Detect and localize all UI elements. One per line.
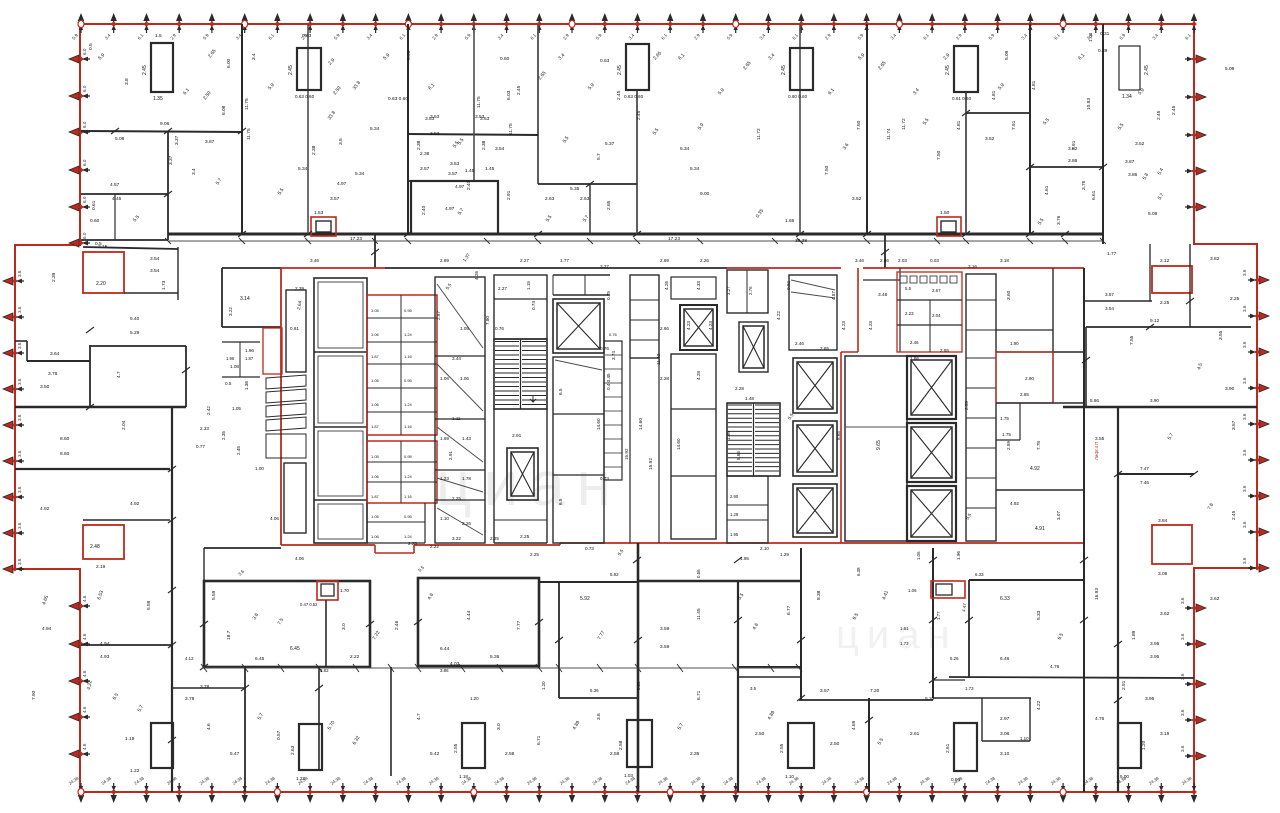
svg-text:0.60: 0.60 xyxy=(90,218,100,224)
svg-text:Лифт.4 П: Лифт.4 П xyxy=(1094,442,1099,460)
svg-text:2.48: 2.48 xyxy=(90,544,100,550)
svg-text:6.0: 6.0 xyxy=(82,159,87,166)
svg-text:3.27: 3.27 xyxy=(600,264,609,269)
stairwell 2 xyxy=(727,403,780,476)
svg-text:4.26: 4.26 xyxy=(664,281,669,290)
svg-text:3.54: 3.54 xyxy=(1105,306,1114,311)
svg-text:2.57: 2.57 xyxy=(436,311,441,320)
core red notch xyxy=(857,268,859,352)
svg-text:3.57: 3.57 xyxy=(330,196,340,202)
top band wall x=867 xyxy=(866,24,868,234)
bottom edge dimension ticks xyxy=(68,775,1197,803)
left wing red room upper xyxy=(83,252,124,293)
svg-text:2.25: 2.25 xyxy=(1160,300,1170,306)
svg-text:2.26: 2.26 xyxy=(700,258,709,263)
room 3.14 walls xyxy=(222,267,281,269)
svg-text:3.60: 3.60 xyxy=(1006,290,1012,300)
svg-text:3.52: 3.52 xyxy=(852,196,862,202)
svg-text:6.33: 6.33 xyxy=(1000,596,1010,602)
wall y=677 xyxy=(949,677,1194,678)
room below stair1 xyxy=(493,409,495,543)
niche strip right of E1 xyxy=(604,341,622,480)
svg-text:1.24: 1.24 xyxy=(404,534,413,539)
svg-text:7.78: 7.78 xyxy=(1036,441,1041,450)
mid-right wall y=301 xyxy=(1084,300,1152,302)
svg-text:6.5: 6.5 xyxy=(558,388,563,395)
svg-text:3.37: 3.37 xyxy=(168,155,174,165)
duct walls 3.59 xyxy=(738,666,801,668)
svg-text:0.76: 0.76 xyxy=(495,326,504,331)
svg-text:5.34: 5.34 xyxy=(355,171,365,177)
small rooms wall x=590 xyxy=(589,184,591,234)
svg-text:2.46: 2.46 xyxy=(394,620,400,630)
svg-text:14.60: 14.60 xyxy=(596,418,601,430)
svg-text:3.87: 3.87 xyxy=(1125,159,1135,165)
lower row wall x=319 xyxy=(318,667,320,770)
core column C rooms xyxy=(435,277,485,543)
svg-text:1.77: 1.77 xyxy=(560,258,569,263)
top-left small partition x=115 xyxy=(114,194,116,240)
core red bottom notch xyxy=(374,545,376,553)
svg-text:3.6: 3.6 xyxy=(1242,269,1247,276)
svg-text:1.06: 1.06 xyxy=(371,402,380,407)
svg-text:5.47: 5.47 xyxy=(230,751,240,757)
svg-text:1.95: 1.95 xyxy=(730,532,739,537)
top band wall x=637 xyxy=(636,90,638,234)
svg-text:11.40: 11.40 xyxy=(656,353,661,365)
elevator E4a xyxy=(907,356,956,419)
svg-text:0.60: 0.60 xyxy=(500,56,510,62)
svg-text:3.6: 3.6 xyxy=(1180,633,1185,640)
top rooms center xyxy=(727,270,768,313)
svg-text:0.63 0.60: 0.63 0.60 xyxy=(295,94,315,99)
left wing wall x=90 xyxy=(89,345,91,407)
rooms below E1 xyxy=(553,357,604,543)
top band wall x=1103 xyxy=(1102,24,1104,244)
left wing wall y=361 xyxy=(27,360,90,362)
svg-text:1.06: 1.06 xyxy=(371,474,380,479)
svg-text:4.44: 4.44 xyxy=(466,610,472,620)
top band wall x=242 xyxy=(241,24,243,234)
svg-text:4.12: 4.12 xyxy=(185,656,194,661)
svg-text:4.91: 4.91 xyxy=(1035,526,1045,532)
left wing wall y=293 xyxy=(124,292,178,294)
svg-text:3.87: 3.87 xyxy=(205,139,215,145)
svg-text:3.37: 3.37 xyxy=(174,135,180,145)
svg-text:2.40: 2.40 xyxy=(466,180,472,190)
svg-text:3.86: 3.86 xyxy=(1068,158,1078,164)
svg-text:2.25: 2.25 xyxy=(520,534,530,540)
svg-text:0.61: 0.61 xyxy=(290,326,299,331)
svg-text:1.75: 1.75 xyxy=(1002,432,1011,437)
svg-text:1.06: 1.06 xyxy=(371,332,380,337)
svg-text:1.5: 1.5 xyxy=(155,33,162,39)
svg-text:0.74: 0.74 xyxy=(531,301,536,310)
svg-text:2.22: 2.22 xyxy=(430,544,439,549)
svg-text:2.23: 2.23 xyxy=(905,311,914,316)
svg-text:6.71: 6.71 xyxy=(536,735,542,745)
svg-text:1.05: 1.05 xyxy=(371,514,380,519)
svg-text:1.53: 1.53 xyxy=(314,210,324,216)
svg-text:1.96: 1.96 xyxy=(956,551,961,560)
svg-text:1.05: 1.05 xyxy=(371,378,380,383)
svg-text:1.24: 1.24 xyxy=(404,332,413,337)
svg-text:3.55: 3.55 xyxy=(1218,330,1224,340)
red service box R3 xyxy=(317,581,338,600)
svg-text:3.6: 3.6 xyxy=(1242,305,1247,312)
room wall y=167 (3.87) xyxy=(1030,166,1103,168)
svg-text:4.94: 4.94 xyxy=(100,641,110,647)
svg-text:0.61 0.60: 0.61 0.60 xyxy=(952,96,972,101)
svg-text:6.03: 6.03 xyxy=(506,90,512,100)
svg-text:2.28: 2.28 xyxy=(660,376,669,381)
shaft bottom 3 xyxy=(627,720,652,767)
svg-text:8.38: 8.38 xyxy=(816,590,822,600)
svg-text:3.07: 3.07 xyxy=(1056,511,1061,520)
svg-text:3.62: 3.62 xyxy=(1210,596,1220,602)
core red outline left xyxy=(280,268,282,545)
svg-text:11.75: 11.75 xyxy=(508,123,514,135)
svg-text:1.10: 1.10 xyxy=(1020,736,1029,741)
svg-text:4.92: 4.92 xyxy=(1010,501,1019,506)
wall x=801 xyxy=(800,548,802,700)
svg-text:0.95: 0.95 xyxy=(404,378,413,383)
svg-text:2.90: 2.90 xyxy=(730,494,739,499)
svg-text:3.53: 3.53 xyxy=(430,131,440,137)
svg-text:1.20: 1.20 xyxy=(1141,740,1147,750)
shaft bottom 2 xyxy=(462,723,485,768)
svg-text:1.35: 1.35 xyxy=(153,96,163,102)
svg-text:2.58: 2.58 xyxy=(505,751,515,757)
svg-text:1.86: 1.86 xyxy=(910,356,919,361)
svg-text:5.34: 5.34 xyxy=(680,146,690,152)
svg-text:5.36: 5.36 xyxy=(590,688,599,693)
svg-text:1.03: 1.03 xyxy=(624,773,633,778)
svg-text:18.7: 18.7 xyxy=(226,630,232,640)
svg-text:5.59: 5.59 xyxy=(146,600,152,610)
svg-text:2.65: 2.65 xyxy=(940,348,949,353)
svg-text:3.10: 3.10 xyxy=(1000,751,1010,757)
svg-text:1.06: 1.06 xyxy=(440,376,449,381)
vent shaft S3 xyxy=(626,44,649,90)
svg-text:4.6: 4.6 xyxy=(82,670,87,677)
svg-text:4.92: 4.92 xyxy=(1030,466,1040,472)
svg-text:3.82: 3.82 xyxy=(1210,256,1220,262)
room 9.65 xyxy=(845,356,907,541)
rooms below stair2 xyxy=(727,476,768,543)
svg-text:6.03: 6.03 xyxy=(406,50,412,60)
svg-text:2.38: 2.38 xyxy=(481,140,487,150)
wall y=700 (7.28) xyxy=(799,699,933,701)
lower row wall x=391 xyxy=(390,667,392,776)
vent shaft S2 xyxy=(297,48,321,90)
svg-text:1.45: 1.45 xyxy=(465,168,475,174)
svg-text:5.92: 5.92 xyxy=(580,596,590,602)
svg-text:4.7: 4.7 xyxy=(116,371,122,378)
svg-text:4.33: 4.33 xyxy=(696,281,701,290)
svg-text:2.19: 2.19 xyxy=(96,564,106,570)
svg-text:3.6: 3.6 xyxy=(17,342,22,349)
svg-text:6.61: 6.61 xyxy=(1091,190,1097,200)
svg-text:16.93: 16.93 xyxy=(1094,588,1100,600)
svg-text:11.75: 11.75 xyxy=(476,96,482,108)
svg-text:4.23: 4.23 xyxy=(708,321,713,330)
svg-text:2.58: 2.58 xyxy=(618,740,624,750)
svg-text:1.96: 1.96 xyxy=(226,356,235,361)
svg-text:4.22: 4.22 xyxy=(776,311,781,320)
top band wall x=538 xyxy=(537,24,539,184)
svg-text:0.47 0.52: 0.47 0.52 xyxy=(300,602,318,607)
svg-text:1.87: 1.87 xyxy=(245,356,254,361)
svg-text:4.23: 4.23 xyxy=(841,321,846,330)
svg-text:1.69: 1.69 xyxy=(440,436,449,441)
svg-text:4.93: 4.93 xyxy=(100,654,110,660)
svg-text:2.46: 2.46 xyxy=(795,341,804,346)
svg-text:3.52: 3.52 xyxy=(985,136,995,142)
svg-text:5.09: 5.09 xyxy=(1148,211,1158,217)
svg-text:2.03: 2.03 xyxy=(898,258,907,263)
mid-right wall y=474 xyxy=(1118,473,1194,475)
core-band wall y=548 xyxy=(204,547,281,549)
svg-text:2.45: 2.45 xyxy=(617,65,623,75)
svg-text:2.26: 2.26 xyxy=(462,521,471,526)
svg-text:0.75: 0.75 xyxy=(606,291,611,300)
svg-text:3.6: 3.6 xyxy=(17,270,22,277)
svg-text:2.27: 2.27 xyxy=(498,286,507,291)
vent shaft S5 xyxy=(954,46,978,92)
svg-text:5.26: 5.26 xyxy=(950,656,959,661)
svg-text:9.65: 9.65 xyxy=(876,440,882,450)
svg-text:1.06: 1.06 xyxy=(460,376,469,381)
svg-text:6.77: 6.77 xyxy=(786,605,792,615)
svg-text:4.6: 4.6 xyxy=(82,743,87,750)
svg-text:11.72: 11.72 xyxy=(901,118,907,130)
svg-text:3.95: 3.95 xyxy=(1150,641,1160,647)
svg-text:4.23: 4.23 xyxy=(868,321,873,330)
mid-right main wall y=407 xyxy=(1063,406,1257,408)
svg-text:4.97: 4.97 xyxy=(337,181,347,187)
svg-text:1.08: 1.08 xyxy=(230,364,239,369)
core top-right rooms xyxy=(897,272,962,352)
mid-right wall x=1086 xyxy=(1085,327,1087,407)
svg-text:6.00: 6.00 xyxy=(226,58,232,68)
svg-text:3.57: 3.57 xyxy=(1231,420,1237,430)
svg-text:2.45: 2.45 xyxy=(1144,65,1150,75)
elevator E3c xyxy=(793,484,837,537)
corridor connector x=375 xyxy=(374,234,376,268)
room 3.46 area xyxy=(863,279,900,281)
svg-text:6.38: 6.38 xyxy=(856,567,861,576)
svg-text:1.05: 1.05 xyxy=(460,326,469,331)
svg-text:5.09: 5.09 xyxy=(1004,50,1010,60)
svg-text:6.0: 6.0 xyxy=(82,85,87,92)
svg-text:2.20: 2.20 xyxy=(96,281,106,287)
svg-text:1.43: 1.43 xyxy=(462,436,471,441)
svg-text:2.67: 2.67 xyxy=(932,288,941,293)
svg-text:3.84: 3.84 xyxy=(1158,518,1168,524)
svg-text:2.65: 2.65 xyxy=(606,200,612,210)
core wall right x=1084 xyxy=(1083,268,1085,678)
svg-text:1.29: 1.29 xyxy=(780,552,789,557)
svg-text:2.39: 2.39 xyxy=(295,286,304,291)
svg-text:2.10: 2.10 xyxy=(760,546,769,551)
svg-text:4.81: 4.81 xyxy=(991,90,997,100)
svg-text:1.10: 1.10 xyxy=(440,516,449,521)
top band partition x=308 xyxy=(307,24,309,234)
svg-text:2.25: 2.25 xyxy=(530,552,539,557)
core vent column E xyxy=(966,274,996,541)
svg-text:2.61: 2.61 xyxy=(910,731,920,737)
vent shaft S6 xyxy=(1119,46,1140,90)
svg-text:8.65: 8.65 xyxy=(736,451,741,460)
svg-text:0.92: 0.92 xyxy=(786,281,791,290)
svg-text:2.38: 2.38 xyxy=(416,140,422,150)
elevator E3a xyxy=(793,358,837,413)
elevator E2 xyxy=(680,305,717,350)
svg-text:8.65: 8.65 xyxy=(836,431,841,440)
core vent column D xyxy=(630,275,659,358)
svg-text:2.28: 2.28 xyxy=(735,386,744,391)
svg-text:2.45: 2.45 xyxy=(636,110,642,120)
svg-text:3.76: 3.76 xyxy=(1081,180,1087,190)
svg-text:2.45: 2.45 xyxy=(945,65,951,75)
svg-text:6.46: 6.46 xyxy=(1000,656,1010,662)
svg-text:2.63: 2.63 xyxy=(545,196,555,202)
room 6.33 walls xyxy=(969,579,1084,581)
elevator E3b xyxy=(793,421,837,476)
svg-text:0.58: 0.58 xyxy=(636,681,641,690)
svg-text:0.94: 0.94 xyxy=(951,777,960,782)
room wall y=113 (3.52) xyxy=(966,112,1030,114)
svg-text:0.95: 0.95 xyxy=(404,308,413,313)
shaft bottom 1 xyxy=(299,724,322,770)
svg-text:2.58: 2.58 xyxy=(610,751,620,757)
svg-text:1.50: 1.50 xyxy=(940,210,950,216)
svg-text:3.57: 3.57 xyxy=(448,171,458,177)
svg-text:2.46: 2.46 xyxy=(910,340,919,345)
core red outline top-mid xyxy=(727,267,841,269)
svg-text:2.35: 2.35 xyxy=(690,751,700,757)
svg-text:2.33: 2.33 xyxy=(200,426,209,431)
elevator E1 xyxy=(553,299,604,353)
svg-text:0.61: 0.61 xyxy=(91,200,97,210)
left edge dimension ticks xyxy=(3,48,90,758)
top-left room wall y=131 xyxy=(81,131,242,132)
svg-text:6.5: 6.5 xyxy=(558,498,563,505)
svg-text:2.39: 2.39 xyxy=(51,272,57,282)
shaft bottom 6 xyxy=(1118,723,1141,768)
svg-text:4.28: 4.28 xyxy=(696,371,701,380)
svg-text:1.06: 1.06 xyxy=(916,551,921,560)
svg-text:3.27: 3.27 xyxy=(726,286,731,295)
svg-text:3.82: 3.82 xyxy=(1068,146,1078,152)
svg-text:2.97: 2.97 xyxy=(1000,716,1010,722)
svg-text:7.20: 7.20 xyxy=(870,688,880,694)
svg-text:1.29: 1.29 xyxy=(730,512,739,517)
svg-text:3.86: 3.86 xyxy=(440,668,449,673)
room 4.97 box xyxy=(411,181,498,234)
svg-text:3.6: 3.6 xyxy=(1242,557,1247,564)
svg-text:11.74: 11.74 xyxy=(886,128,892,140)
svg-text:4.92: 4.92 xyxy=(130,501,140,507)
svg-text:0.73: 0.73 xyxy=(585,546,594,551)
svg-text:3.0: 3.0 xyxy=(496,723,502,730)
svg-text:3.59: 3.59 xyxy=(660,626,670,632)
right edge dimension ticks xyxy=(1180,55,1269,760)
svg-text:2.45: 2.45 xyxy=(781,65,787,75)
svg-text:5.29: 5.29 xyxy=(130,330,140,336)
svg-text:1.06: 1.06 xyxy=(908,588,917,593)
bottom band room A xyxy=(204,581,370,667)
right rooms top xyxy=(1052,268,1054,403)
svg-text:3.53: 3.53 xyxy=(450,161,460,167)
lower row wall y=645 xyxy=(81,644,172,646)
svg-text:3.78: 3.78 xyxy=(200,684,210,690)
svg-text:5.34: 5.34 xyxy=(690,166,700,172)
svg-text:5.08: 5.08 xyxy=(115,136,125,142)
svg-text:14.60: 14.60 xyxy=(638,418,644,430)
svg-text:2.63: 2.63 xyxy=(290,745,296,755)
svg-text:2.45: 2.45 xyxy=(236,446,241,455)
svg-text:3.08: 3.08 xyxy=(1158,571,1168,577)
svg-text:5.37: 5.37 xyxy=(605,141,615,147)
left wing step x=27 xyxy=(26,341,28,361)
svg-text:5.34: 5.34 xyxy=(298,166,308,172)
svg-text:2.76: 2.76 xyxy=(748,286,753,295)
svg-text:3.95: 3.95 xyxy=(1145,696,1155,702)
svg-text:3.46: 3.46 xyxy=(310,258,319,263)
svg-text:8.60: 8.60 xyxy=(60,436,70,442)
svg-text:2.45: 2.45 xyxy=(616,90,622,100)
shaft bottom 4 xyxy=(788,723,814,768)
wall x=869 xyxy=(868,698,870,792)
svg-text:7.50: 7.50 xyxy=(936,150,942,160)
wall y=698 (5.26) xyxy=(933,697,1031,699)
svg-text:1.70: 1.70 xyxy=(340,588,349,593)
svg-text:11.75: 11.75 xyxy=(246,128,252,140)
svg-text:6.45: 6.45 xyxy=(290,646,300,652)
lower row wall x=245 xyxy=(244,667,246,792)
svg-text:1.19: 1.19 xyxy=(125,736,135,742)
svg-text:5.33: 5.33 xyxy=(1036,610,1042,620)
svg-text:3.6: 3.6 xyxy=(1180,745,1185,752)
svg-text:5.92: 5.92 xyxy=(610,572,619,577)
svg-text:1.34: 1.34 xyxy=(1122,94,1132,100)
room 4.92 xyxy=(996,402,1084,404)
top band partition x=800 xyxy=(799,24,801,234)
svg-text:5.7: 5.7 xyxy=(596,153,602,160)
svg-text:4.87: 4.87 xyxy=(831,291,836,300)
svg-text:3.6: 3.6 xyxy=(17,522,22,529)
svg-text:1.05: 1.05 xyxy=(371,454,380,459)
svg-text:0.77: 0.77 xyxy=(196,444,205,449)
svg-text:1.00: 1.00 xyxy=(255,466,264,471)
svg-text:6.45: 6.45 xyxy=(255,656,265,662)
svg-text:0.4 0.45: 0.4 0.45 xyxy=(606,373,611,390)
small rooms below 3.14 xyxy=(222,341,260,343)
svg-text:0.73: 0.73 xyxy=(600,476,609,481)
svg-text:3.54: 3.54 xyxy=(150,256,160,262)
svg-text:1.45: 1.45 xyxy=(485,166,495,172)
svg-text:7.55: 7.55 xyxy=(1129,335,1135,345)
core top wall xyxy=(385,267,727,269)
svg-text:2.85: 2.85 xyxy=(1020,392,1029,397)
svg-text:1.23: 1.23 xyxy=(440,476,449,481)
svg-text:7.50: 7.50 xyxy=(824,165,830,175)
left block wall x=172 xyxy=(171,407,173,792)
svg-text:3.46: 3.46 xyxy=(855,258,864,263)
dimension line y=668 xyxy=(204,667,799,669)
